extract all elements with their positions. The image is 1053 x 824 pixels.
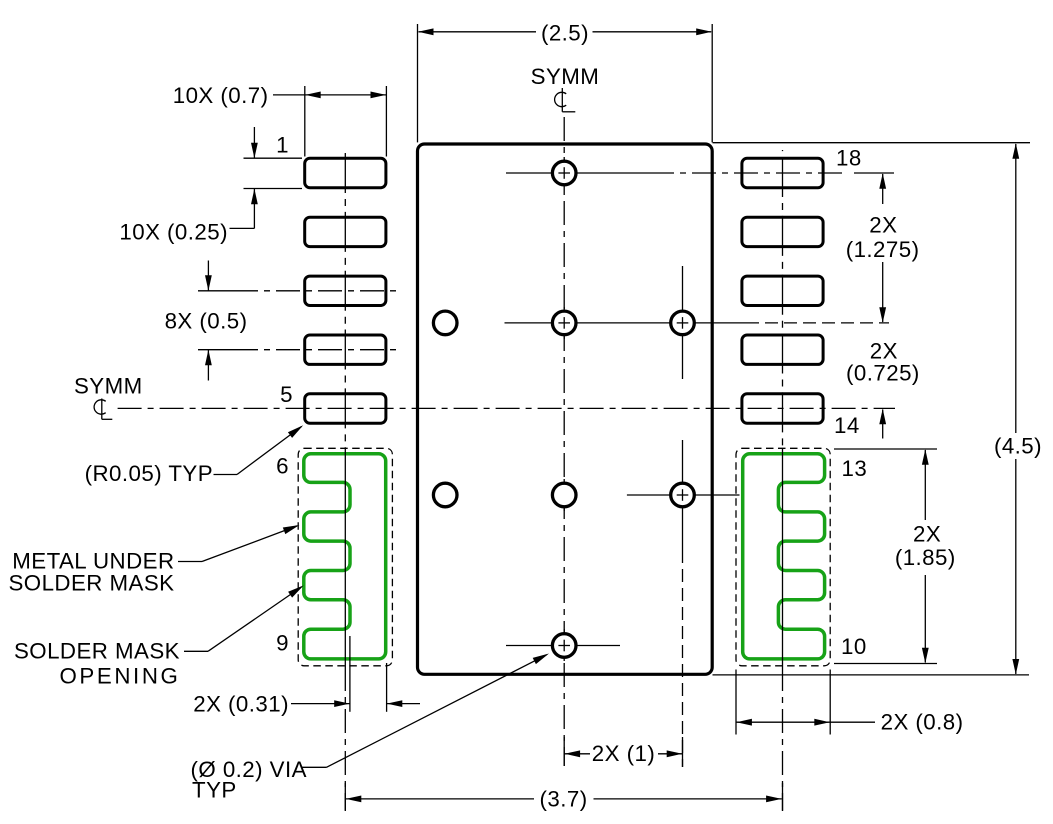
dimension (4.5) — [713, 142, 1031, 144]
svg-text:SOLDER MASK: SOLDER MASK — [8, 571, 174, 596]
left pad column centerline through mask — [344, 448, 346, 667]
leader SOLDER MASK OPENING — [184, 650, 208, 652]
pad pin 3 — [305, 276, 386, 305]
dimension 2X (0.31) — [349, 636, 351, 712]
pad pin 15 — [742, 335, 823, 364]
svg-text:SYMM: SYMM — [74, 374, 143, 399]
dimension 10X (0.7) — [304, 86, 306, 157]
svg-text:TYP: TYP — [192, 778, 237, 803]
via lower-row right — [671, 483, 695, 507]
dimension 2X (1.275) — [882, 174, 884, 204]
via column extension line — [682, 550, 684, 767]
svg-text:(0.725): (0.725) — [846, 361, 920, 386]
dimension 10X (0.25) — [244, 157, 303, 159]
via middle-row center — [552, 311, 576, 335]
pad pin 16 — [742, 276, 823, 305]
via crosshair vertical middle-right — [682, 266, 684, 379]
svg-text:8X (0.5): 8X (0.5) — [165, 308, 248, 333]
dimension 2X (1.85) — [834, 448, 937, 450]
leader (diameter 0.2) VIA TYP — [302, 766, 327, 768]
right pad column centerline lower — [782, 667, 784, 811]
svg-text:1: 1 — [276, 132, 289, 157]
svg-text:18: 18 — [836, 145, 862, 170]
svg-text:SYMM: SYMM — [531, 64, 600, 89]
svg-text:(3.7): (3.7) — [540, 786, 588, 811]
centerline symbol left — [94, 399, 112, 420]
lower via row centerline — [627, 494, 740, 496]
via lower-row left — [433, 483, 457, 507]
left pad column centerline lower — [344, 667, 346, 811]
dimension 8X (0.5) — [198, 290, 252, 292]
solder mask opening dashed outline right — [736, 448, 830, 666]
centerline solid across bottom via — [563, 629, 565, 661]
svg-text:2X (0.8): 2X (0.8) — [881, 710, 964, 735]
pad pin 2 — [305, 217, 386, 246]
pad pin 1 — [305, 158, 386, 187]
dimension 2X (0.8) — [735, 670, 737, 735]
svg-text:(1.275): (1.275) — [846, 237, 920, 262]
centerline solid across top via — [563, 157, 565, 189]
bottom via crosshair horizontal — [506, 645, 620, 647]
svg-text:2X: 2X — [913, 522, 941, 547]
svg-text:(2.5): (2.5) — [541, 20, 589, 45]
pad pin 14 — [742, 394, 823, 423]
leader METAL UNDER SOLDER MASK — [178, 561, 202, 563]
svg-text:5: 5 — [280, 382, 293, 407]
via crosshair vertical lower-right — [682, 440, 684, 550]
dimension (2.5) — [417, 24, 419, 142]
extension line left pad column — [344, 783, 346, 811]
svg-text:10X (0.25): 10X (0.25) — [119, 220, 228, 245]
svg-text:10X (0.7): 10X (0.7) — [173, 83, 269, 108]
solder mask opening dashed outline left — [298, 448, 392, 666]
left pad column centerline — [344, 148, 346, 448]
via top center — [552, 161, 576, 185]
pad pin 18 — [742, 158, 823, 187]
thermal pad main outline — [418, 144, 713, 674]
dimension 2X (1) — [564, 753, 590, 755]
pin1/pin18 row centerline through top via — [506, 172, 650, 174]
svg-text:(1.85): (1.85) — [895, 545, 956, 570]
dimension 2X (0.725) — [882, 410, 884, 439]
svg-text:13: 13 — [842, 456, 868, 481]
svg-text:2X (0.31): 2X (0.31) — [193, 692, 289, 717]
svg-text:OPENING: OPENING — [59, 663, 180, 688]
extension line right pad column — [782, 783, 784, 811]
pad pin 17 — [742, 217, 823, 246]
svg-text:(R0.05) TYP: (R0.05) TYP — [85, 461, 213, 486]
extension line at via column — [682, 737, 684, 767]
horizontal symmetry centerline — [118, 407, 895, 409]
svg-text:14: 14 — [834, 413, 860, 438]
extension line at symmetry axis — [563, 737, 565, 766]
via middle-row right — [671, 311, 695, 335]
vertical symmetry centerline — [563, 117, 565, 766]
svg-text:9: 9 — [276, 631, 289, 656]
svg-text:SOLDER MASK: SOLDER MASK — [14, 638, 180, 663]
right pad column centerline — [782, 150, 784, 448]
svg-text:6: 6 — [276, 454, 289, 479]
centerline symbol top — [555, 88, 576, 112]
centerline solid across middle via — [563, 307, 565, 339]
dimension (3.7) — [346, 798, 534, 800]
svg-text:(4.5): (4.5) — [994, 434, 1042, 459]
middle via row centerline — [505, 322, 747, 324]
svg-text:2X: 2X — [869, 212, 897, 237]
svg-text:10: 10 — [841, 634, 867, 659]
pad pin 4 — [305, 335, 386, 364]
svg-text:2X (1): 2X (1) — [592, 741, 655, 766]
via lower-row center — [552, 483, 576, 507]
centerline solid across lower via — [563, 479, 565, 511]
metal under solder mask shape pins 6-9 — [304, 454, 386, 659]
via bottom center — [552, 634, 576, 658]
leader (R0.05) TYP — [214, 474, 238, 476]
via middle-row left — [433, 311, 457, 335]
right pad column centerline through mask — [782, 448, 784, 667]
pad pin 5 — [305, 394, 386, 423]
metal under solder mask shape pins 10-13 — [743, 454, 825, 659]
